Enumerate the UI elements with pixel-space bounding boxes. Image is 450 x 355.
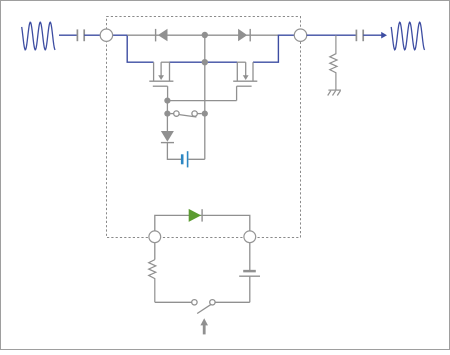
wire Q1 drain to Q2 drain (blue, through center node) xyxy=(170,61,238,63)
top gray wire P1 to P2 through diodes xyxy=(127,34,278,36)
switch S2 (open, lever down) xyxy=(192,300,250,314)
battery BT2 xyxy=(239,271,260,276)
wire R2 to switch S2 xyxy=(155,301,192,303)
wire P4 down to BT2 xyxy=(249,243,251,270)
wire switch-left node down to D3 xyxy=(166,114,168,132)
wire BT1 to center column xyxy=(188,158,204,160)
ground symbol xyxy=(328,90,341,95)
port P1 xyxy=(100,29,112,41)
diode D2 (pointing right) xyxy=(238,29,250,42)
capacitor C1 xyxy=(77,29,84,41)
wire P2 to C2 (blue) xyxy=(307,34,356,36)
wire C2 to output arrow xyxy=(363,34,381,36)
junction node center-blue xyxy=(202,59,208,65)
wire top loop P3 to P4 xyxy=(155,215,250,231)
wire gate link Q1-Q2 xyxy=(167,100,236,102)
resistor R2 xyxy=(149,260,156,303)
wire input to C1 xyxy=(59,34,77,36)
wire gate node down to switch xyxy=(166,101,168,114)
transistor Q2 (right MOSFET) xyxy=(233,62,257,100)
junction node at top of center column xyxy=(202,32,208,38)
LED D4 (green, pointing right) xyxy=(189,209,202,222)
wire D3 to battery BT1 xyxy=(167,143,181,160)
transistor Q1 (left MOSFET) xyxy=(149,62,173,100)
wire P3 down to R2 xyxy=(154,243,156,260)
diode D1 (pointing left) xyxy=(156,29,168,42)
junction node gate-left xyxy=(164,98,170,104)
output arrowhead xyxy=(381,32,387,39)
battery BT1 xyxy=(182,151,187,167)
lower loop: port P3 xyxy=(149,231,161,243)
lower loop: port P4 xyxy=(244,231,256,243)
diode D3 (pointing down) xyxy=(161,131,174,143)
actuate arrow under S2 xyxy=(200,318,208,334)
switch S1 (open) xyxy=(171,111,202,117)
junction node switch-right on center column xyxy=(202,111,208,117)
output sine waveform V2 xyxy=(391,22,425,50)
input sine waveform V1 xyxy=(22,22,56,50)
center column wire (diode junction down to battery) xyxy=(204,35,206,159)
junction node switch-left xyxy=(164,111,170,117)
wire P1 branch down to Q1 source (blue) xyxy=(113,35,154,62)
dashed subcircuit boundary box xyxy=(107,17,301,238)
port P2 xyxy=(294,29,306,41)
capacitor C2 xyxy=(356,30,363,42)
resistor R1 to ground xyxy=(330,35,337,90)
wire BT2 to S2 xyxy=(249,276,251,302)
wire C1 to port P1 xyxy=(84,34,100,36)
wire Q2 source up to port P2 (blue) xyxy=(253,35,294,62)
